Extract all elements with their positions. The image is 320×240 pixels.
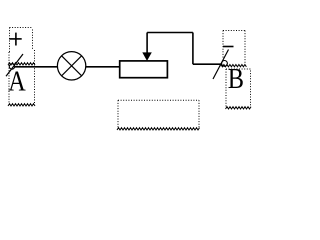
rheostat R (slide resistor body)	[120, 61, 168, 78]
dashed box (answer blank) bottom center	[118, 100, 199, 128]
wire from wiper up	[146, 33, 148, 54]
wire down right	[192, 33, 194, 65]
plus sign (battery positive)	[9, 33, 21, 46]
zigzag bottom of B box	[226, 107, 252, 109]
slash mark at A	[6, 54, 23, 76]
svg-text:A: A	[8, 66, 26, 98]
lamp L1 (circle with X)	[57, 52, 85, 80]
dashed box (battery - terminal) top-right	[223, 31, 245, 65]
wire top horizontal	[147, 32, 193, 34]
zigzag bottom of A box	[8, 104, 35, 106]
wire to terminal B	[193, 63, 222, 65]
svg-text:B: B	[228, 63, 244, 95]
terminal B circle	[222, 61, 228, 67]
wiper arrow	[142, 52, 152, 61]
wire A to lamp	[15, 66, 58, 68]
dashed box (battery + terminal) top-left	[10, 28, 33, 53]
dashed box (terminal B) lower-right	[226, 69, 251, 107]
zigzag bottom of answer box	[117, 128, 200, 130]
wire lamp to rheostat	[86, 66, 120, 68]
minus sign (battery negative)	[223, 46, 234, 48]
zigzag bottom of - box	[219, 65, 246, 67]
terminal A circle	[9, 64, 14, 69]
slash mark at B	[213, 50, 229, 80]
dashed box (terminal A) lower-left	[9, 50, 35, 104]
zigzag bottom of + box	[8, 63, 35, 65]
